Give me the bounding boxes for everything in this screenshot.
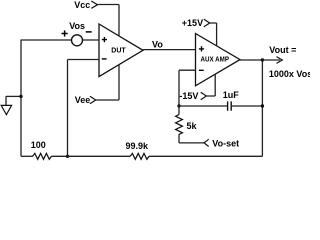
node junction dot feedback/rail: [66, 155, 69, 158]
resistor 100: [31, 140, 52, 159]
wire right vertical rail up to output node: [261, 60, 263, 156]
wire -15V to AUX bottom: [206, 74, 215, 96]
wire AUX - input feedback: [179, 70, 196, 106]
svg-text:-15V: -15V: [179, 91, 198, 101]
resistor 5k: [176, 106, 198, 134]
wire AUX output to node: [240, 59, 262, 61]
wire Vee to DUT bottom: [96, 65, 119, 100]
pin + of DUT: [102, 37, 107, 42]
svg-text:AUX AMP: AUX AMP: [201, 56, 230, 63]
ground: [1, 96, 11, 114]
voltage source Vos: [69, 21, 85, 46]
pin - of DUT: [102, 58, 107, 60]
svg-text:100: 100: [31, 140, 46, 150]
wire 5k bottom to Vo-set terminal: [179, 134, 204, 143]
svg-text:DUT: DUT: [111, 48, 126, 55]
svg-text:Vcc: Vcc: [74, 0, 90, 10]
pin - of AUX AMP: [199, 69, 204, 71]
terminal -15V: [179, 91, 206, 101]
svg-text:Vo-set: Vo-set: [212, 138, 239, 148]
wire DUT - input vertical down to rail: [67, 60, 69, 157]
wire bottom rail segment 1: [21, 155, 33, 157]
wire from left corner to Vos source (+ input net): [21, 39, 72, 41]
svg-text:Vo: Vo: [152, 39, 163, 49]
wire Vcc to DUT top: [98, 5, 120, 36]
wire DUT output to AUX + input: [143, 49, 196, 51]
polarity - of Vos: [86, 31, 92, 33]
svg-text:1uF: 1uF: [223, 90, 240, 100]
svg-text:Vos: Vos: [69, 21, 85, 31]
pin + of AUX AMP: [199, 46, 204, 51]
node junction dot feedback/cap/5k: [177, 104, 180, 107]
svg-text:+15V: +15V: [182, 18, 203, 28]
wire output arrow Vout: [262, 57, 282, 64]
wire left vertical down to bottom rail: [20, 40, 22, 157]
svg-text:99.9k: 99.9k: [126, 141, 150, 151]
capacitor C1 1uF: [179, 90, 262, 111]
wire +15V to AUX top: [210, 23, 217, 46]
terminal +15V: [182, 18, 210, 28]
wire bottom rail segment 2: [51, 155, 130, 157]
wire ground tap: [6, 95, 21, 97]
node junction dot output: [261, 58, 264, 61]
polarity + of Vos: [62, 30, 68, 36]
op-amp U2 AUX AMP: [196, 34, 241, 86]
terminal Vcc: [74, 0, 97, 10]
svg-text:Vout =: Vout =: [269, 45, 296, 55]
wire Vos source to DUT + input: [83, 39, 100, 41]
node junction dot ground tap: [19, 95, 22, 98]
op-amp U1 DUT: [99, 24, 143, 77]
wire DUT - input horizontal: [68, 59, 100, 61]
svg-text:1000x Vos: 1000x Vos: [269, 69, 310, 79]
svg-text:5k: 5k: [187, 121, 198, 131]
svg-text:Vee: Vee: [75, 95, 91, 105]
resistor 99.9k: [126, 141, 150, 159]
terminal Vo-set: [204, 138, 239, 148]
node junction dot cap/right rail: [261, 104, 264, 107]
wire bottom rail segment 3: [149, 155, 263, 157]
terminal Vee: [75, 95, 96, 105]
